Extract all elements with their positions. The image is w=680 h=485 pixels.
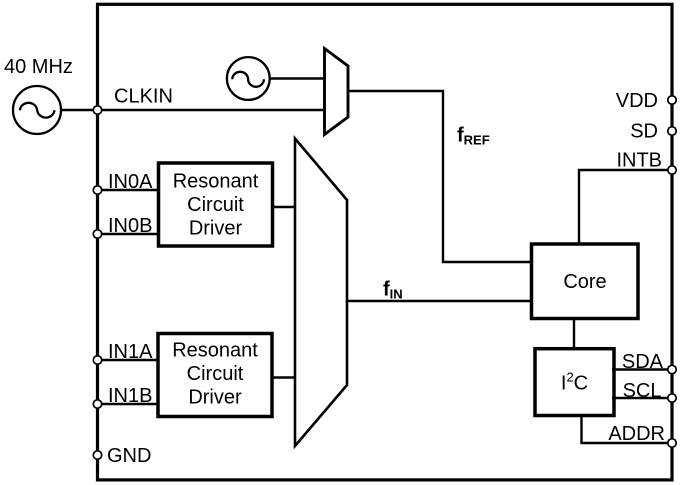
pin SCL [668,394,676,402]
svg-text:SCL: SCL [623,380,662,402]
svg-text:Resonant: Resonant [173,171,259,193]
svg-text:IN1B: IN1B [108,385,152,407]
wire: Core to I2C [573,318,575,350]
block: Resonant Circuit Driver 1 [158,334,272,417]
wire/net ADDR [582,414,671,443]
pin IN0A [93,186,101,194]
pin SDA [668,365,676,373]
svg-text:INTB: INTB [616,150,662,172]
svg-text:Resonant: Resonant [172,340,258,362]
svg-text:IN0A: IN0A [108,171,153,193]
wire: internal oscillator to reference mux [270,77,324,79]
pin ADDR [668,439,676,447]
svg-text:SD: SD [630,121,658,143]
wire: IN1A pin to driver [99,359,158,361]
svg-text:SDA: SDA [622,351,664,373]
svg-text:Core: Core [563,271,606,293]
oscillator internal reference [227,57,270,100]
pin INTB [668,166,676,174]
wire: IN0A pin to driver [99,189,158,191]
svg-text:fIN: fIN [383,279,403,302]
svg-text:40 MHz: 40 MHz [4,56,73,78]
svg-text:Circuit: Circuit [187,363,244,385]
pin SD [668,127,676,135]
pin IN1A [93,356,101,364]
svg-text:fREF: fREF [457,125,490,148]
wire: IN0B pin to driver [99,233,158,235]
svg-text:VDD: VDD [616,90,658,112]
mux: reference clock select [325,49,349,135]
wire: IN1B pin to driver [99,403,158,405]
svg-text:I2C: I2C [561,370,588,395]
pin VDD [668,96,676,104]
pin IN0B [93,230,101,238]
svg-text:ADDR: ADDR [608,423,665,445]
block: Resonant Circuit Driver 0 [159,163,273,246]
block: I2C [535,349,614,416]
wire: driver0 output to input mux [273,206,295,208]
wire/net fIN: input mux to Core [347,300,532,302]
svg-text:Driver: Driver [188,387,242,409]
pin IN1B [93,400,101,408]
mux: input channel select [295,139,347,447]
oscillator source 40 MHz [13,86,61,134]
pin CLKIN [93,106,101,114]
wire: driver1 output to input mux [272,376,294,378]
svg-text:Circuit: Circuit [187,194,244,216]
wire/net SDA [612,368,670,370]
wire: CLKIN pin to reference mux [99,109,323,111]
svg-text:CLKIN: CLKIN [114,86,173,108]
block: Core [532,244,639,319]
svg-text:GND: GND [107,445,151,467]
wire: oscillator to CLKIN pin [61,109,95,111]
svg-text:Driver: Driver [189,218,243,240]
wire/net fREF: reference mux to Core [348,91,532,262]
wire/net INTB: right edge to Core top [579,170,670,246]
pin GND [93,451,101,459]
svg-text:IN1A: IN1A [108,341,153,363]
wire/net SCL [612,397,670,399]
svg-text:IN0B: IN0B [108,215,152,237]
